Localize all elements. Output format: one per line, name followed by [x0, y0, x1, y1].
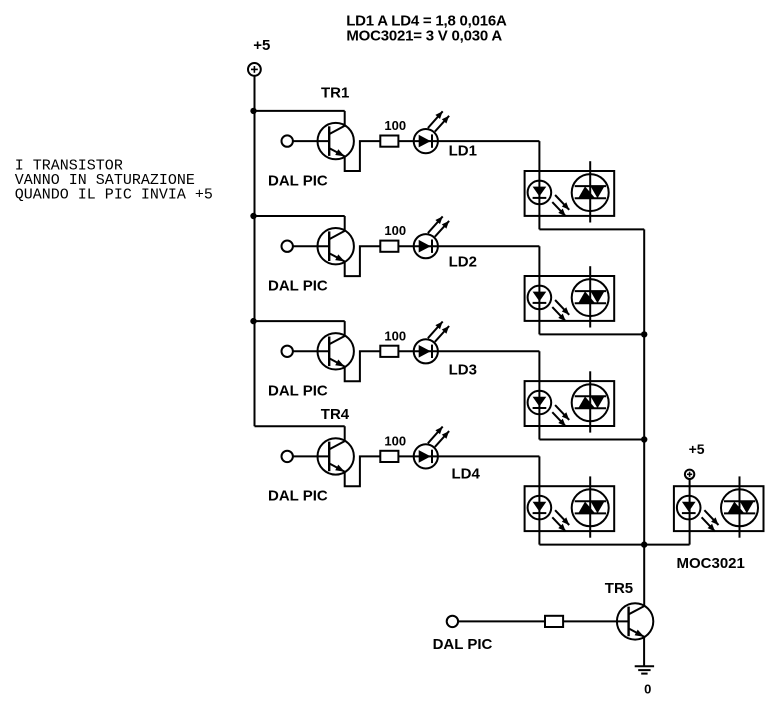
- wire MOC anode: [689, 479, 691, 545]
- wire right rail: [643, 229, 645, 606]
- resistor R3 100: [380, 346, 398, 357]
- wire resistor to base TR5: [563, 620, 629, 622]
- input terminal TR3: [282, 346, 293, 357]
- wire opto 3 cathode to rail: [539, 439, 644, 441]
- junction node stage 2: [250, 213, 256, 219]
- wire into opto 1 anode: [538, 141, 540, 229]
- resistor R1 100: [380, 136, 398, 147]
- svg-text:LD2: LD2: [449, 253, 477, 270]
- svg-text:+5: +5: [689, 441, 705, 457]
- wire emitter TR5 to ground: [643, 637, 645, 667]
- LED LD1: [414, 111, 449, 153]
- junction node stage 3: [250, 318, 256, 324]
- svg-text:LD4: LD4: [452, 466, 481, 483]
- resistor R5: [545, 616, 563, 627]
- svg-text:TR4: TR4: [321, 406, 350, 423]
- svg-text:MOC3021: MOC3021: [677, 555, 745, 572]
- svg-text:TR5: TR5: [605, 580, 633, 597]
- wire resistor to opto 3: [398, 350, 539, 352]
- optocoupler U1: [525, 161, 615, 222]
- svg-text:DAL PIC: DAL PIC: [268, 172, 328, 189]
- svg-text:DAL PIC: DAL PIC: [433, 636, 493, 653]
- svg-text:QUANDO IL PIC INVIA +5: QUANDO IL PIC INVIA +5: [15, 187, 213, 204]
- input terminal TR1: [282, 135, 293, 146]
- svg-text:100: 100: [384, 223, 406, 238]
- transistor TR2: [318, 228, 354, 264]
- junction right rail 3: [641, 541, 647, 547]
- wire emitter jog TR2: [345, 246, 381, 276]
- wire resistor to opto 4: [398, 455, 539, 457]
- junction node stage 1: [250, 108, 256, 114]
- optocoupler U4: [525, 476, 615, 537]
- svg-text:100: 100: [384, 328, 406, 343]
- svg-text:100: 100: [384, 118, 406, 133]
- svg-text:0: 0: [644, 682, 651, 697]
- wire resistor to opto 2: [398, 245, 539, 247]
- ground: [635, 666, 654, 673]
- wire opto 1 cathode to rail: [539, 228, 644, 230]
- wire into opto 4 anode: [538, 456, 540, 544]
- wire emitter jog TR3: [345, 351, 381, 381]
- resistor R4 100: [380, 451, 398, 462]
- svg-text:+5: +5: [253, 37, 270, 54]
- optocoupler U2: [525, 266, 615, 327]
- wire into opto 3 anode: [538, 351, 540, 439]
- wire base TR3: [293, 350, 329, 352]
- wire emitter jog TR1: [345, 141, 381, 171]
- wire stage 3 top branch: [255, 320, 345, 322]
- wire opto 4 cathode to rail: [539, 544, 689, 546]
- transistor TR4: [318, 438, 354, 474]
- transistor TR3: [318, 333, 354, 369]
- LED LD3: [414, 322, 449, 364]
- optocoupler MOC3021: [674, 476, 764, 537]
- wire stage 2 top branch: [255, 215, 345, 217]
- wire base TR1: [293, 140, 329, 142]
- svg-text:LD1: LD1: [449, 142, 477, 159]
- wire collector drop 2: [344, 216, 346, 231]
- wire base TR2: [293, 245, 329, 247]
- wire +5 rail: [254, 76, 256, 426]
- LED LD2: [414, 216, 449, 258]
- svg-text:MOC3021= 3 V 0,030 A: MOC3021= 3 V 0,030 A: [346, 27, 502, 44]
- svg-text:TR1: TR1: [321, 85, 349, 102]
- input terminal TR5: [447, 616, 458, 627]
- junction right rail 2: [641, 436, 647, 442]
- input terminal TR4: [282, 451, 293, 462]
- svg-text:DAL PIC: DAL PIC: [268, 487, 328, 504]
- transistor TR5: [617, 603, 653, 639]
- wire stage 1 top branch: [255, 110, 345, 112]
- wire collector drop 4: [344, 426, 346, 441]
- wire stage 4 top branch: [255, 425, 345, 427]
- input terminal TR2: [282, 241, 293, 252]
- power symbol +5: [248, 63, 261, 76]
- wire emitter jog TR4: [345, 456, 381, 486]
- junction right rail 1: [641, 331, 647, 337]
- wire input to resistor TR5: [458, 620, 545, 622]
- wire into opto 2 anode: [538, 246, 540, 334]
- wire base TR4: [293, 455, 329, 457]
- wire opto 2 cathode to rail: [539, 333, 644, 335]
- svg-text:LD3: LD3: [449, 362, 477, 379]
- wire collector drop 3: [344, 321, 346, 336]
- note text: [15, 158, 213, 204]
- transistor TR1: [318, 123, 354, 159]
- svg-text:100: 100: [384, 433, 406, 448]
- resistor R2 100: [380, 241, 398, 252]
- svg-text:DAL PIC: DAL PIC: [268, 382, 328, 399]
- power symbol +5 MOC: [685, 470, 694, 479]
- svg-text:DAL PIC: DAL PIC: [268, 277, 328, 294]
- LED LD4: [414, 427, 449, 469]
- wire collector drop 1: [344, 111, 346, 126]
- optocoupler U3: [525, 371, 615, 432]
- wire resistor to opto 1: [398, 140, 539, 142]
